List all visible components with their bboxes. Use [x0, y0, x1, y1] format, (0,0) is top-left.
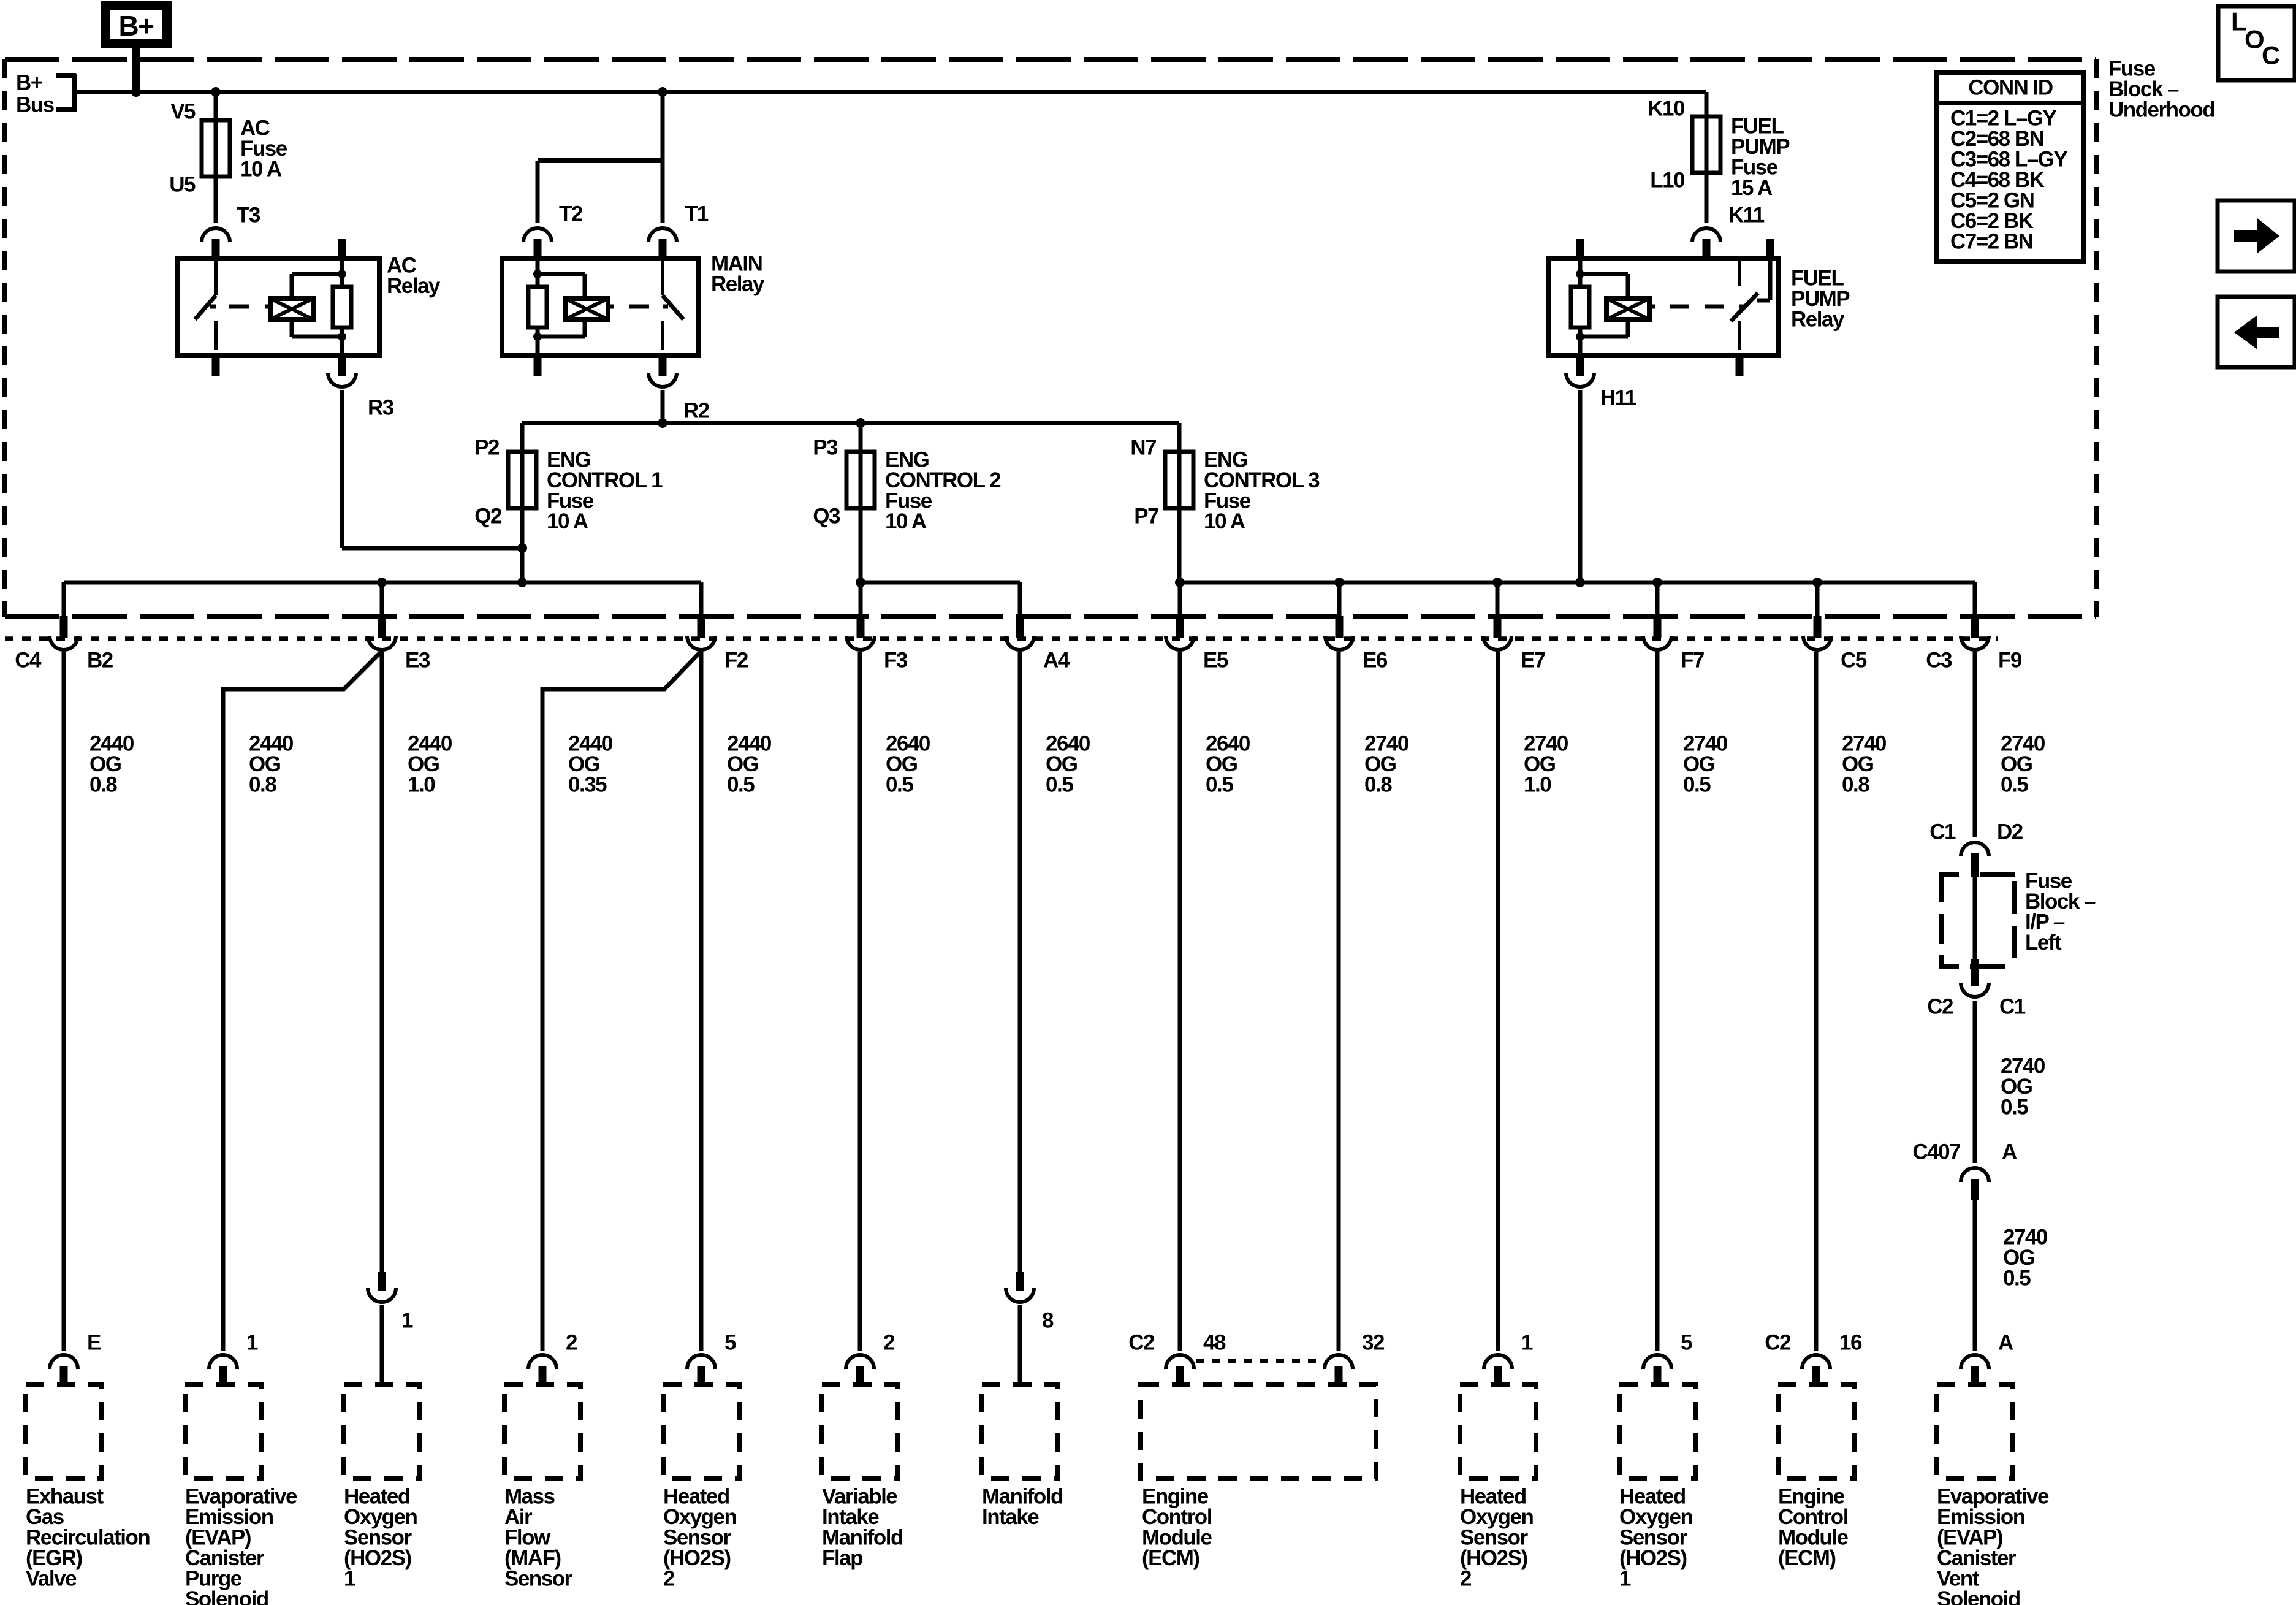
- wire H11 to right output rail: [1578, 390, 1583, 582]
- wire R2 to fuse rail: [661, 390, 665, 423]
- label EGR valve: [26, 1485, 150, 1591]
- label HO2S 1 right: [1619, 1485, 1692, 1591]
- svg-text:P7: P7: [1134, 505, 1158, 528]
- label HO2S 1: [344, 1485, 417, 1591]
- pin K10: [1648, 97, 1685, 121]
- wire Q2 to output rail: [520, 508, 525, 582]
- svg-text:T1: T1: [685, 202, 709, 226]
- wire L10 to connector K11: [1705, 172, 1709, 223]
- svg-text:(ECM): (ECM): [1778, 1546, 1836, 1570]
- value label ECM pin48 wire 2640: [1206, 732, 1250, 797]
- connector K11: [1692, 204, 1765, 259]
- svg-text:CONN ID: CONN ID: [1968, 76, 2053, 100]
- node B+ Bus bracket and label: [16, 71, 76, 117]
- svg-text:Left: Left: [2025, 931, 2062, 955]
- FUEL PUMP relay switch: [1731, 258, 1770, 350]
- component variable intake manifold flap: [822, 1384, 898, 1479]
- value label HO2S1 wire 2440: [408, 732, 452, 797]
- value label EVAP purge wire 2440: [249, 732, 294, 797]
- AC relay switch pin stub bottom: [212, 356, 220, 376]
- ECM connector dotted line: [1196, 1359, 1323, 1363]
- junction dot R2 on fuse rail: [658, 418, 667, 428]
- connector C2 C1 fuse block IP left bottom: [1927, 959, 2026, 1019]
- svg-text:C2: C2: [1128, 1331, 1155, 1355]
- junction dot C5: [1812, 578, 1822, 587]
- label manifold intake: [982, 1485, 1063, 1530]
- label HO2S 2: [663, 1485, 736, 1591]
- svg-text:E5: E5: [1203, 649, 1228, 673]
- fuse ENG CONTROL 2 Fuse 10A: [846, 452, 875, 508]
- connector pin 1 EVAP canister purge solenoid: [209, 1331, 258, 1385]
- wire ECM right wire 2740: [1814, 652, 1819, 1351]
- pin L10: [1650, 169, 1685, 193]
- svg-text:C: C: [2262, 41, 2280, 70]
- label Fuse Block - Underhood: [2108, 57, 2214, 122]
- fuse block IP left dashed box: [1942, 875, 2015, 967]
- pin P3: [813, 436, 838, 460]
- junction dot P3 on fuse rail: [856, 418, 865, 428]
- wire ECM pin32 wire 2740: [1337, 652, 1341, 1351]
- svg-text:E7: E7: [1521, 649, 1545, 673]
- svg-text:K11: K11: [1728, 204, 1765, 227]
- svg-text:1: 1: [246, 1331, 258, 1355]
- FUEL PUMP relay coil circuit: [1571, 258, 1745, 356]
- pin N7: [1130, 436, 1156, 460]
- connector T2: [523, 202, 583, 259]
- svg-text:C1: C1: [1929, 820, 1956, 844]
- relay MAIN Relay: [502, 258, 699, 356]
- connector B2 fuse block pass-through: [15, 616, 113, 673]
- MAIN relay coil pin stub bottom: [534, 356, 542, 376]
- svg-text:F9: F9: [1998, 649, 2022, 673]
- wire ECM pin48 wire 2640: [1178, 652, 1182, 1351]
- label ENG CONTROL 2 Fuse 10 A: [885, 448, 1001, 534]
- terminal B+ battery feed: [101, 1, 172, 48]
- connector pin 32 ECM: [1325, 1331, 1385, 1386]
- wire bus to AC fuse V5: [214, 92, 218, 121]
- wire manifold intake wire 2640: [1018, 652, 1022, 1272]
- value label VIM flap wire 2640: [886, 732, 930, 797]
- wire R3 to ENG CONTROL 1 feed: [342, 390, 522, 548]
- value label 2740 OG 0.5 lower: [2003, 1226, 2048, 1290]
- svg-text:1.0: 1.0: [1524, 773, 1551, 797]
- svg-text:Sensor: Sensor: [504, 1567, 573, 1591]
- svg-text:48: 48: [1203, 1331, 1226, 1355]
- value label manifold intake wire 2640: [1046, 732, 1090, 797]
- wire EVAP purge wire 2440: [221, 742, 226, 1351]
- label FUEL PUMP Fuse 15 A: [1731, 115, 1790, 200]
- wire right output rail E5 to F9: [1180, 582, 1975, 617]
- wire Q3 to F3 A4 rail: [859, 508, 863, 582]
- fuse ENG CONTROL 1 Fuse 10A: [508, 452, 536, 508]
- svg-text:C4: C4: [15, 649, 42, 673]
- FUEL PUMP relay coil pin stub top: [1576, 239, 1584, 258]
- svg-text:B2: B2: [87, 649, 113, 673]
- connector pin 5 HO2S 1 right: [1643, 1331, 1692, 1385]
- junction dot R3 joins Q2 wire: [517, 543, 527, 553]
- wire AC fuse to connector T3: [214, 175, 218, 223]
- component EGR valve: [26, 1384, 102, 1479]
- value label ECM right wire 2740: [1842, 732, 1887, 797]
- connector HO2S1 inline 1: [368, 1272, 413, 1384]
- svg-text:15 A: 15 A: [1731, 176, 1773, 200]
- harness connector dotted line: [5, 636, 1998, 641]
- svg-text:Bus: Bus: [16, 93, 55, 117]
- wire EVAP vent wire 2740: [1973, 652, 1977, 837]
- svg-text:2: 2: [566, 1331, 577, 1355]
- connector R2: [648, 356, 710, 423]
- svg-text:1: 1: [1619, 1567, 1631, 1591]
- connector pin 2 MAF sensor: [528, 1331, 577, 1385]
- wire bus to FUEL PUMP fuse K10: [1705, 92, 1709, 118]
- component EVAP canister purge solenoid: [185, 1384, 261, 1479]
- wire P7 to right output rail: [1177, 508, 1182, 582]
- junction dot E7: [1492, 578, 1502, 587]
- svg-text:Solenoid: Solenoid: [185, 1587, 268, 1605]
- svg-text:Relay: Relay: [387, 274, 441, 298]
- svg-text:1: 1: [1521, 1331, 1533, 1355]
- svg-text:E3: E3: [405, 649, 430, 673]
- svg-text:0.8: 0.8: [1842, 773, 1869, 797]
- label EVAP canister vent solenoid: [1937, 1485, 2049, 1605]
- wire E3 branch diagonal to EVAP purge drop: [223, 651, 382, 742]
- junction dot E6: [1334, 578, 1344, 587]
- label ECM right: [1778, 1485, 1849, 1571]
- label MAIN Relay: [711, 252, 765, 297]
- wire ENG CONTROL fuse top rail: [522, 423, 1179, 453]
- connector T1: [648, 202, 709, 259]
- label ENG CONTROL 1 Fuse 10 A: [547, 448, 663, 534]
- relay AC Relay: [177, 258, 379, 356]
- value label ECM pin32 wire 2740: [1364, 732, 1409, 797]
- value label HO2S2 wire 2440: [727, 732, 772, 797]
- svg-text:L10: L10: [1650, 169, 1685, 193]
- label HO2S 2 right: [1460, 1485, 1533, 1591]
- wire HO2S1 right wire 2740: [1655, 652, 1660, 1351]
- wire C407 to EVAP vent solenoid: [1973, 1200, 1977, 1351]
- component ECM right: [1778, 1384, 1854, 1479]
- svg-text:Valve: Valve: [26, 1567, 77, 1591]
- connector F2 fuse block pass-through: [687, 616, 748, 673]
- pin Q3: [813, 505, 840, 528]
- relay FUEL PUMP Relay: [1549, 258, 1779, 356]
- connector E3 fuse block pass-through: [368, 616, 430, 673]
- svg-text:2: 2: [663, 1567, 675, 1591]
- value label HO2S2 right wire 2740: [1524, 732, 1568, 797]
- svg-text:1: 1: [344, 1567, 355, 1591]
- connector manifold intake inline 8: [1006, 1272, 1054, 1384]
- connector R3: [328, 356, 394, 420]
- label EVAP canister purge solenoid: [185, 1485, 297, 1605]
- svg-text:0.5: 0.5: [2001, 1096, 2028, 1119]
- svg-text:2: 2: [1460, 1567, 1472, 1591]
- svg-text:D2: D2: [1997, 820, 2023, 844]
- FUEL PUMP relay switch pin stub top right: [1766, 239, 1774, 258]
- label Fuse Block IP Left: [2025, 869, 2096, 955]
- svg-text:16: 16: [1839, 1331, 1862, 1355]
- svg-text:T2: T2: [559, 202, 583, 226]
- value label 2740 OG 0.5 upper: [2001, 1054, 2045, 1119]
- svg-text:R2: R2: [683, 399, 710, 423]
- wire HO2S2 right wire 2740: [1496, 652, 1500, 1351]
- svg-text:10 A: 10 A: [240, 158, 282, 181]
- svg-text:(ECM): (ECM): [1142, 1546, 1199, 1570]
- svg-text:P2: P2: [474, 436, 500, 460]
- connector E5 fuse block pass-through: [1166, 616, 1228, 673]
- svg-text:0.5: 0.5: [2001, 773, 2028, 797]
- arrow previous-page left: [2218, 297, 2295, 367]
- value label EVAP vent wire 2740: [2001, 732, 2045, 797]
- svg-text:A: A: [2002, 1140, 2017, 1164]
- wire T2 T1 split: [538, 161, 663, 223]
- LOC symbol box: [2218, 6, 2295, 80]
- component HO2S 2: [663, 1384, 739, 1479]
- wire F3 A4 rail: [861, 582, 1020, 617]
- connector pin 5 HO2S 2: [687, 1331, 736, 1385]
- arrow next-page right: [2218, 200, 2295, 272]
- component HO2S 1 right: [1619, 1384, 1695, 1479]
- connector C5 fuse block pass-through: [1803, 616, 1867, 673]
- svg-text:H11: H11: [1600, 386, 1636, 410]
- fuse FUEL PUMP Fuse 15A: [1692, 116, 1720, 173]
- svg-text:C407: C407: [1912, 1140, 1960, 1164]
- label ECM: [1142, 1485, 1212, 1571]
- svg-text:C7=2 BN: C7=2 BN: [1950, 230, 2032, 254]
- svg-text:10 A: 10 A: [1204, 509, 1245, 533]
- junction dot V5 branch on bus: [211, 87, 221, 97]
- svg-text:T3: T3: [237, 204, 260, 227]
- wire inside fuse block IP left: [1973, 877, 1977, 961]
- connector pin 2 variable intake manifold flap: [846, 1331, 895, 1385]
- wire HO2S2 wire 2440: [699, 652, 704, 1351]
- value label MAF wire 2440: [568, 732, 613, 797]
- wire MAF wire 2440: [541, 742, 545, 1351]
- connector pin E EGR valve: [50, 1331, 101, 1385]
- junction dot E3 branch: [377, 578, 387, 587]
- MAIN relay switch: [663, 258, 683, 350]
- svg-text:B+: B+: [118, 10, 153, 42]
- svg-text:10 A: 10 A: [885, 509, 927, 533]
- component EVAP canister vent solenoid: [1937, 1384, 2013, 1479]
- junction dot Q2 on left rail: [517, 578, 527, 587]
- svg-text:Q3: Q3: [813, 505, 840, 528]
- svg-text:C1: C1: [1999, 995, 2026, 1019]
- label AC Relay: [387, 254, 441, 299]
- AC relay coil circuit: [210, 258, 351, 356]
- svg-text:0.5: 0.5: [727, 773, 755, 797]
- component HO2S 2 right: [1460, 1384, 1536, 1479]
- svg-text:F3: F3: [884, 649, 908, 673]
- connector C2 pin 48 ECM: [1128, 1331, 1226, 1386]
- svg-text:Q2: Q2: [474, 505, 502, 528]
- wire B+ to bus: [132, 47, 140, 93]
- svg-text:Intake: Intake: [982, 1505, 1039, 1529]
- wire B+ bus horizontal: [76, 90, 1706, 94]
- pin Q2: [474, 505, 502, 528]
- connector F7 fuse block pass-through: [1643, 616, 1704, 673]
- wire EGR valve wire 2440: [62, 652, 66, 1351]
- svg-text:N7: N7: [1130, 436, 1156, 460]
- connector E6 fuse block pass-through: [1325, 616, 1388, 673]
- connector pin 1 HO2S 2 right: [1484, 1331, 1533, 1385]
- pin P7: [1134, 505, 1158, 528]
- junction dot E5: [1175, 578, 1185, 587]
- wire HO2S1 wire 2440: [380, 652, 384, 1272]
- svg-text:0.8: 0.8: [1364, 773, 1392, 797]
- svg-text:R3: R3: [368, 396, 394, 420]
- svg-text:0.8: 0.8: [89, 773, 117, 797]
- svg-text:V5: V5: [170, 100, 196, 124]
- connector A4 fuse block pass-through: [1006, 616, 1070, 673]
- svg-text:A: A: [1998, 1331, 2013, 1355]
- junction dot B+ stub on bus: [131, 87, 141, 97]
- junction dot H11 rail: [1575, 578, 1585, 587]
- wire left output rail Q2 to B2 E3 F2: [64, 582, 701, 617]
- label MAF sensor: [504, 1485, 573, 1591]
- component HO2S 1: [344, 1384, 420, 1479]
- pin U5: [169, 173, 196, 197]
- connector pin A EVAP canister vent solenoid: [1961, 1331, 2013, 1385]
- connector F9 fuse block pass-through: [1926, 616, 2022, 673]
- svg-text:0.35: 0.35: [568, 773, 607, 797]
- wire bus to MAIN relay branch: [661, 92, 665, 161]
- value label EGR valve wire 2440: [89, 732, 134, 797]
- svg-text:Solenoid: Solenoid: [1937, 1587, 2020, 1605]
- svg-text:0.5: 0.5: [2003, 1267, 2031, 1290]
- AC relay coil pin stub top: [338, 239, 346, 258]
- svg-text:5: 5: [724, 1331, 736, 1355]
- svg-text:Flap: Flap: [822, 1546, 862, 1570]
- component MAF sensor: [504, 1384, 580, 1479]
- svg-text:Relay: Relay: [711, 272, 765, 296]
- svg-text:32: 32: [1362, 1331, 1385, 1355]
- connector C407 A: [1912, 1140, 2017, 1201]
- component manifold intake: [982, 1384, 1058, 1479]
- label ENG CONTROL 3 Fuse 10 A: [1204, 448, 1320, 534]
- svg-text:U5: U5: [169, 173, 196, 197]
- svg-text:E6: E6: [1363, 649, 1388, 673]
- svg-text:0.5: 0.5: [1046, 773, 1073, 797]
- component ECM engine control module: [1141, 1384, 1376, 1479]
- label variable intake manifold flap: [822, 1485, 903, 1571]
- fuse block underhood dashed border: [5, 59, 2096, 617]
- label AC Fuse 10 A: [240, 116, 287, 181]
- value label HO2S1 right wire 2740: [1683, 732, 1728, 797]
- connector pin 16 ECM right: [1765, 1331, 1862, 1385]
- junction dot T1 branch on bus: [658, 87, 667, 97]
- table CONN ID: [1937, 72, 2084, 261]
- connector H11: [1566, 356, 1636, 410]
- svg-text:0.5: 0.5: [886, 773, 913, 797]
- svg-text:0.8: 0.8: [249, 773, 276, 797]
- junction dot F7: [1652, 578, 1662, 587]
- label FUEL PUMP Relay: [1791, 267, 1850, 332]
- connector F3 fuse block pass-through: [846, 616, 908, 673]
- FUEL PUMP relay switch pin stub bottom: [1736, 356, 1744, 376]
- connector C1 D2 fuse block IP left top: [1929, 820, 2023, 877]
- wire C1 to C407: [1973, 1001, 1977, 1163]
- fuse ENG CONTROL 3 Fuse 10A: [1165, 452, 1193, 508]
- svg-text:1: 1: [401, 1309, 413, 1333]
- svg-text:C3: C3: [1926, 649, 1952, 673]
- svg-text:10 A: 10 A: [547, 509, 588, 533]
- MAIN relay coil circuit: [528, 258, 668, 356]
- connector E7 fuse block pass-through: [1483, 616, 1545, 673]
- svg-text:F2: F2: [724, 649, 748, 673]
- svg-text:A4: A4: [1043, 649, 1070, 673]
- wire F2 branch diagonal to MAF drop: [542, 651, 701, 742]
- svg-text:8: 8: [1042, 1309, 1054, 1333]
- svg-text:0.5: 0.5: [1683, 773, 1711, 797]
- pin V5: [170, 100, 196, 124]
- svg-text:P3: P3: [813, 436, 838, 460]
- svg-text:0.5: 0.5: [1206, 773, 1233, 797]
- svg-text:C5: C5: [1841, 649, 1867, 673]
- AC relay switch: [195, 258, 216, 350]
- svg-text:5: 5: [1681, 1331, 1692, 1355]
- svg-text:B+: B+: [16, 71, 43, 95]
- svg-text:C2: C2: [1927, 995, 1953, 1019]
- svg-text:F7: F7: [1681, 649, 1704, 673]
- svg-text:1.0: 1.0: [408, 773, 435, 797]
- svg-text:2: 2: [883, 1331, 895, 1355]
- wire VIM flap wire 2640: [858, 652, 862, 1351]
- pin P2: [474, 436, 500, 460]
- connector T3: [202, 204, 260, 259]
- svg-text:Underhood: Underhood: [2108, 98, 2214, 122]
- svg-text:Relay: Relay: [1791, 308, 1845, 332]
- svg-text:K10: K10: [1648, 97, 1685, 121]
- fuse AC Fuse 10A: [202, 120, 230, 177]
- svg-text:E: E: [87, 1331, 101, 1355]
- svg-text:C2: C2: [1765, 1331, 1791, 1355]
- svg-text:O: O: [2245, 25, 2264, 54]
- junction dot F3 branch: [856, 578, 865, 587]
